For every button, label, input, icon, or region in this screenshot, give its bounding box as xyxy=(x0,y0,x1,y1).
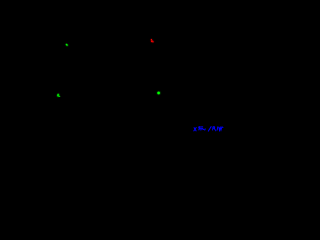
star blob C (green, lower-left) xyxy=(57,93,61,97)
under dots xyxy=(215,130,217,132)
word RW xyxy=(212,127,214,130)
slash xyxy=(208,127,211,131)
comma mark xyxy=(204,129,206,130)
word Jm xyxy=(198,127,201,130)
watermark signature (blue), hand-drawn strokes xyxy=(194,127,223,132)
glyph X xyxy=(194,128,196,131)
star blob A (green, upper-left) xyxy=(65,43,68,46)
star blob D (green, lower-right) xyxy=(157,91,160,94)
star blob B (red, upper-right) xyxy=(150,39,154,43)
